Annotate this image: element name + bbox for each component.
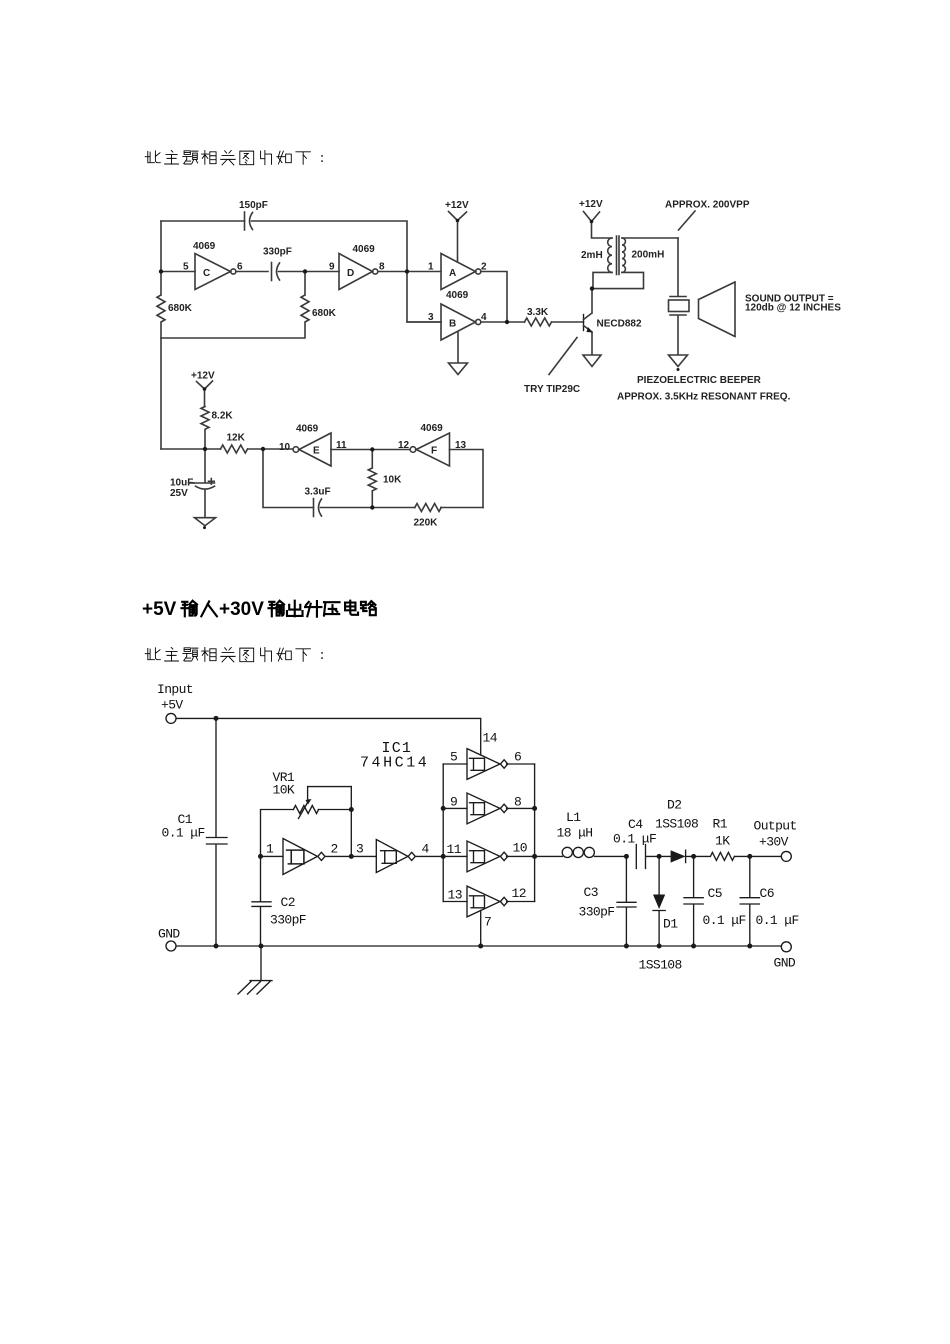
svg-text:4069: 4069 bbox=[296, 424, 319, 435]
svg-text:7: 7 bbox=[484, 915, 491, 930]
svg-text:TRY TIP29C: TRY TIP29C bbox=[524, 384, 580, 395]
svg-text:3.3K: 3.3K bbox=[527, 307, 549, 318]
svg-text:1: 1 bbox=[428, 262, 434, 273]
svg-text:1SS108: 1SS108 bbox=[639, 958, 682, 973]
svg-text:+30V: +30V bbox=[219, 599, 264, 620]
svg-text:330pF: 330pF bbox=[579, 905, 615, 920]
svg-text:4069: 4069 bbox=[421, 423, 444, 434]
svg-text:0.1 μF: 0.1 μF bbox=[703, 913, 746, 928]
svg-text:1: 1 bbox=[266, 842, 274, 857]
svg-text:+5V: +5V bbox=[161, 698, 183, 713]
svg-text:4069: 4069 bbox=[353, 244, 376, 255]
svg-text:D2: D2 bbox=[667, 798, 681, 813]
svg-text:4069: 4069 bbox=[446, 290, 469, 301]
svg-text:8: 8 bbox=[379, 262, 385, 273]
svg-text:12: 12 bbox=[512, 886, 526, 901]
svg-text:GND: GND bbox=[158, 927, 180, 942]
svg-text:APPROX. 200VPP: APPROX. 200VPP bbox=[665, 200, 750, 211]
svg-text:6: 6 bbox=[514, 750, 521, 765]
svg-text:+12V: +12V bbox=[445, 200, 469, 211]
svg-text:+5V: +5V bbox=[142, 599, 177, 620]
svg-text:150pF: 150pF bbox=[239, 200, 268, 211]
svg-text:0.1 μF: 0.1 μF bbox=[756, 913, 799, 928]
svg-text:10K: 10K bbox=[383, 475, 402, 486]
svg-text:8.2K: 8.2K bbox=[212, 411, 234, 422]
svg-text:13: 13 bbox=[448, 888, 462, 903]
svg-text:220K: 220K bbox=[414, 518, 439, 529]
svg-text:E: E bbox=[313, 446, 320, 457]
svg-text:14: 14 bbox=[483, 731, 498, 746]
svg-text:C: C bbox=[203, 268, 210, 279]
svg-text:+30V: +30V bbox=[759, 835, 789, 850]
svg-text:NECD882: NECD882 bbox=[597, 319, 642, 330]
svg-text:200mH: 200mH bbox=[632, 250, 665, 261]
svg-text:L1: L1 bbox=[566, 810, 581, 825]
svg-text:2mH: 2mH bbox=[581, 250, 603, 261]
svg-text:R1: R1 bbox=[713, 817, 728, 832]
svg-text:C5: C5 bbox=[708, 886, 722, 901]
svg-text:11: 11 bbox=[336, 440, 347, 451]
svg-text:C3: C3 bbox=[584, 885, 598, 900]
svg-text:9: 9 bbox=[329, 262, 335, 273]
svg-text:5: 5 bbox=[183, 262, 189, 273]
svg-text:1K: 1K bbox=[715, 834, 730, 849]
svg-text:0.1 μF: 0.1 μF bbox=[162, 826, 205, 841]
svg-text:10K: 10K bbox=[273, 783, 295, 798]
svg-text:PIEZOELECTRIC BEEPER: PIEZOELECTRIC BEEPER bbox=[637, 375, 762, 386]
svg-text:74HC14: 74HC14 bbox=[360, 755, 429, 772]
svg-text:4: 4 bbox=[422, 842, 430, 857]
svg-text:6: 6 bbox=[237, 262, 243, 273]
svg-text:B: B bbox=[449, 319, 456, 330]
svg-text:GND: GND bbox=[774, 956, 796, 971]
svg-text:+12V: +12V bbox=[579, 199, 603, 210]
svg-text:10: 10 bbox=[513, 841, 527, 856]
svg-text:Output: Output bbox=[754, 819, 797, 834]
svg-text:8: 8 bbox=[514, 795, 521, 810]
svg-text:12K: 12K bbox=[227, 433, 246, 444]
svg-text:+12V: +12V bbox=[191, 371, 215, 382]
svg-text:9: 9 bbox=[450, 795, 457, 810]
svg-text:C6: C6 bbox=[760, 886, 774, 901]
svg-text:1SS108: 1SS108 bbox=[655, 817, 698, 832]
svg-text:11: 11 bbox=[447, 842, 462, 857]
svg-text:330pF: 330pF bbox=[263, 247, 292, 258]
svg-text:C4: C4 bbox=[628, 817, 643, 832]
svg-text:C2: C2 bbox=[281, 895, 295, 910]
svg-text:18 μH: 18 μH bbox=[557, 826, 593, 841]
svg-text:5: 5 bbox=[450, 750, 457, 765]
svg-text:330pF: 330pF bbox=[270, 913, 306, 928]
svg-text:2: 2 bbox=[481, 262, 487, 273]
svg-text:10: 10 bbox=[279, 442, 291, 453]
svg-text:Input: Input bbox=[157, 682, 193, 697]
svg-text:4069: 4069 bbox=[193, 241, 216, 252]
svg-text:3.3uF: 3.3uF bbox=[305, 487, 331, 498]
svg-text:13: 13 bbox=[455, 440, 467, 451]
svg-text:0.1 μF: 0.1 μF bbox=[613, 832, 656, 847]
svg-text:680K: 680K bbox=[168, 303, 193, 314]
svg-text:12: 12 bbox=[398, 440, 410, 451]
svg-text:3: 3 bbox=[356, 842, 363, 857]
svg-text:A: A bbox=[449, 268, 456, 279]
svg-text:D1: D1 bbox=[663, 917, 678, 932]
svg-text:120db @ 12 INCHES: 120db @ 12 INCHES bbox=[745, 303, 841, 314]
svg-text:APPROX. 3.5KHz RESONANT FREQ.: APPROX. 3.5KHz RESONANT FREQ. bbox=[617, 392, 791, 403]
svg-text:680K: 680K bbox=[312, 308, 337, 319]
svg-text:2: 2 bbox=[331, 842, 338, 857]
svg-text:D: D bbox=[347, 268, 354, 279]
svg-text:F: F bbox=[431, 446, 437, 457]
svg-text:25V: 25V bbox=[170, 488, 188, 499]
